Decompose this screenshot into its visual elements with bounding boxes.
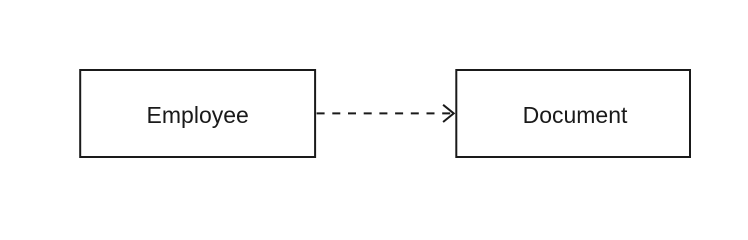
node Employee box bbox=[80, 70, 315, 157]
svg-text:Employee: Employee bbox=[147, 102, 249, 128]
node Document box bbox=[456, 70, 690, 157]
wire dashed dependency line Employee to Document bbox=[317, 112, 454, 114]
svg-text:Document: Document bbox=[523, 102, 628, 128]
arrowhead open V at Document bbox=[443, 105, 454, 122]
